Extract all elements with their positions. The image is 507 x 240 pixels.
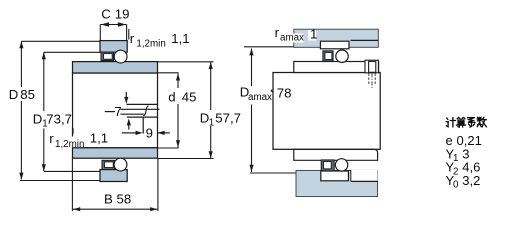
svg-text:57,7: 57,7	[215, 110, 241, 125]
svg-text:amax: amax	[280, 33, 304, 44]
svg-text:1: 1	[209, 117, 214, 128]
svg-text:73,7: 73,7	[46, 111, 72, 126]
svg-text:58: 58	[117, 191, 132, 206]
svg-text:B: B	[104, 191, 113, 206]
svg-text:19: 19	[115, 7, 130, 22]
svg-text:D: D	[9, 87, 19, 102]
svg-text:0: 0	[453, 180, 459, 191]
svg-text:r: r	[275, 25, 280, 40]
svg-text:1: 1	[42, 118, 47, 129]
svg-text:amax: amax	[248, 92, 272, 103]
svg-text:3,2: 3,2	[462, 173, 480, 188]
svg-text:1,2min: 1,2min	[55, 139, 84, 150]
svg-text:1: 1	[310, 27, 317, 42]
svg-text:9: 9	[146, 125, 153, 140]
svg-text:85: 85	[20, 87, 35, 102]
svg-text:D: D	[33, 111, 43, 126]
svg-text:r: r	[49, 131, 54, 146]
svg-text:2: 2	[453, 166, 458, 177]
svg-text:r: r	[130, 31, 135, 46]
svg-text:1,1: 1,1	[90, 131, 108, 146]
svg-text:C: C	[101, 7, 111, 22]
svg-text:1: 1	[453, 153, 458, 164]
svg-text:d: d	[168, 90, 175, 105]
svg-text:1,2min: 1,2min	[136, 39, 165, 50]
svg-text:78: 78	[277, 86, 292, 101]
svg-text:7: 7	[114, 104, 121, 119]
svg-text:1,1: 1,1	[171, 31, 189, 46]
svg-text:45: 45	[182, 90, 197, 105]
